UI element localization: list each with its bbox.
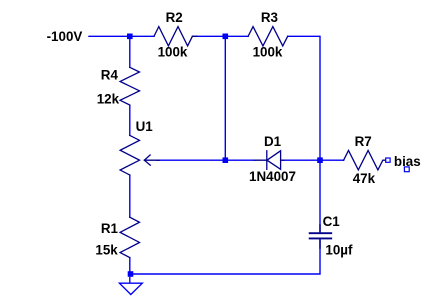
wire D1 to R7 bbox=[284, 159, 344, 161]
svg-text:U1: U1 bbox=[136, 119, 154, 134]
wire C1 to bottom bbox=[130, 240, 320, 274]
wire R4 to U1 bbox=[129, 105, 131, 135]
wire top between R2 and R3 bbox=[192, 35, 248, 37]
wire top-right corner R3 to right rail bbox=[288, 36, 320, 160]
resistor R7 bbox=[344, 151, 386, 170]
capacitor C1 bbox=[319, 225, 321, 248]
potentiometer U1 body bbox=[120, 135, 139, 175]
svg-text:R2: R2 bbox=[166, 10, 183, 25]
svg-text:10µf: 10µf bbox=[325, 243, 353, 258]
junction node right rail / wiper row bbox=[317, 157, 323, 163]
svg-text:R4: R4 bbox=[101, 68, 119, 83]
svg-text:100k: 100k bbox=[253, 44, 283, 59]
svg-text:D1: D1 bbox=[264, 134, 282, 149]
svg-text:47k: 47k bbox=[353, 171, 376, 186]
wire left rail junction to R4 bbox=[129, 36, 131, 67]
wire middle rail vertical bbox=[224, 36, 226, 160]
wire wiper to D1 bbox=[157, 159, 255, 161]
wire top from -100V to R2 bbox=[89, 35, 154, 37]
junction node at -100V rail / R4 bbox=[127, 34, 133, 40]
terminal pin square at R7 output bbox=[386, 158, 390, 162]
ground bbox=[119, 283, 142, 294]
junction node top middle rail bbox=[223, 34, 229, 40]
svg-text:R3: R3 bbox=[261, 10, 278, 25]
resistor R2 bbox=[154, 27, 197, 46]
resistor R4 bbox=[120, 67, 139, 105]
ground stub wire bbox=[129, 277, 131, 283]
resistor R3 bbox=[248, 27, 288, 46]
svg-text:15k: 15k bbox=[95, 243, 118, 258]
svg-text:C1: C1 bbox=[323, 214, 341, 229]
resistor R1 bbox=[120, 217, 139, 257]
wire U1 to R1 bbox=[129, 175, 131, 217]
diode D1 bbox=[255, 151, 284, 170]
net label anchor square under bias bbox=[404, 167, 409, 172]
junction node bottom left bbox=[128, 271, 134, 277]
svg-text:1N4007: 1N4007 bbox=[249, 169, 296, 184]
wire R1 to bottom junction bbox=[129, 258, 131, 274]
svg-text:100k: 100k bbox=[158, 44, 188, 59]
wire right rail to C1 bbox=[319, 160, 321, 231]
junction node middle rail / wiper row bbox=[223, 157, 229, 163]
svg-text:R1: R1 bbox=[101, 221, 119, 236]
potentiometer U1 wiper arrow bbox=[144, 155, 159, 165]
svg-text:12k: 12k bbox=[97, 92, 120, 107]
svg-text:bias: bias bbox=[394, 154, 421, 169]
svg-text:-100V: -100V bbox=[47, 29, 83, 44]
svg-text:R7: R7 bbox=[355, 134, 372, 149]
